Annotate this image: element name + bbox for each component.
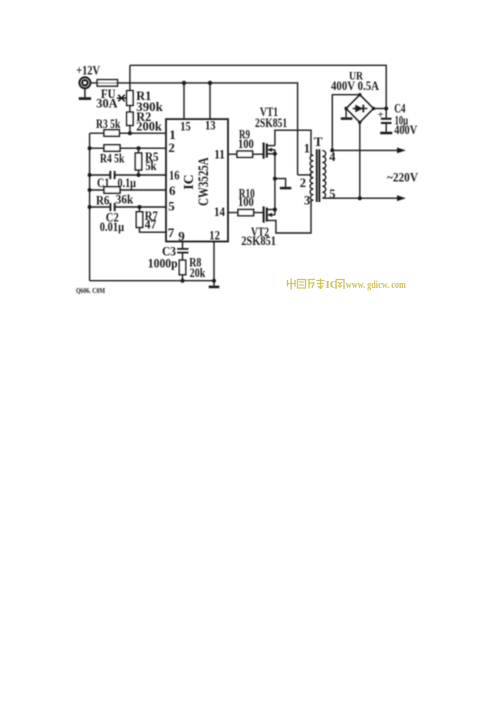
svg-text:1: 1 bbox=[304, 141, 310, 155]
node bridge top vertex bbox=[358, 93, 361, 96]
svg-text:2: 2 bbox=[168, 140, 175, 155]
svg-text:20k: 20k bbox=[190, 265, 206, 280]
svg-text:30A: 30A bbox=[96, 96, 118, 111]
wire: pin 11 to R9 to VT1 gate bbox=[228, 153, 263, 155]
node pin13 rail bbox=[208, 81, 212, 85]
svg-text:5k: 5k bbox=[145, 158, 157, 173]
svg-text:11: 11 bbox=[214, 146, 225, 161]
svg-text:100: 100 bbox=[238, 136, 254, 151]
svg-text:~220V: ~220V bbox=[387, 170, 418, 184]
svg-text:CW3525A: CW3525A bbox=[196, 157, 212, 206]
wire: vertical fuse node to top rail and down to R1 bbox=[129, 65, 131, 90]
svg-text:2: 2 bbox=[300, 176, 306, 190]
wire: pin 13 stub bbox=[209, 83, 211, 119]
svg-text:16: 16 bbox=[169, 168, 180, 183]
svg-text:+: + bbox=[378, 110, 384, 121]
node left bus row16 bbox=[88, 173, 92, 177]
wire: VT1 drain up and over to transformer tap 1 bbox=[275, 130, 314, 155]
output arrow top bbox=[397, 148, 406, 154]
svg-text:T: T bbox=[314, 134, 323, 149]
JUNCTION DOTS bbox=[88, 81, 389, 283]
ground bar under C4 bbox=[380, 132, 392, 135]
svg-text:100: 100 bbox=[238, 194, 254, 209]
node VT2 source bbox=[273, 208, 277, 212]
svg-text:C1: C1 bbox=[97, 175, 109, 190]
node C4 top bbox=[384, 107, 388, 111]
svg-text:2SK851: 2SK851 bbox=[241, 233, 276, 248]
svg-text:4: 4 bbox=[329, 150, 336, 164]
bridge rectifier UR bbox=[346, 95, 373, 123]
wire: pin 1 net (R3 row) bbox=[90, 132, 166, 134]
svg-text:0.01µ: 0.01µ bbox=[100, 219, 125, 234]
wire: pin 15 stub bbox=[183, 83, 185, 119]
resistor R7 bbox=[136, 212, 142, 228]
node bridge right vertex bbox=[372, 107, 375, 110]
wire: R2 bottom to pin1 net bbox=[129, 125, 131, 133]
transformer T core bbox=[317, 149, 320, 202]
node tap 5 / bridge bottom bbox=[358, 196, 362, 200]
resistor R6 bbox=[104, 187, 120, 193]
svg-text:1000p: 1000p bbox=[148, 255, 178, 270]
output arrow bottom bbox=[397, 195, 406, 201]
resistor R10 bbox=[238, 210, 254, 216]
transformer secondary winding bbox=[322, 151, 325, 199]
node pin15 rail bbox=[182, 81, 186, 85]
svg-text:400V 0.5A: 400V 0.5A bbox=[331, 79, 379, 93]
node R8 bottom rail bbox=[181, 279, 185, 283]
wire: output row top (tap 4) bbox=[332, 149, 397, 151]
node R5 bottom bbox=[137, 173, 141, 177]
transistor Q1 VT1 MOSFET bbox=[264, 143, 275, 159]
transformer primary winding bbox=[310, 155, 313, 200]
wire: connector to fuse bbox=[90, 82, 97, 84]
svg-text:200k: 200k bbox=[136, 119, 162, 134]
wire: bottom ground rail bbox=[90, 280, 214, 282]
svg-text:3: 3 bbox=[304, 194, 310, 208]
resistor R5 bbox=[135, 153, 141, 170]
node left bus row2 bbox=[88, 146, 92, 150]
wire: left vertical bus bbox=[89, 133, 91, 281]
wire: pin 2 net (R4 row) bbox=[90, 147, 166, 149]
wire: transformer centre tap 2 bbox=[298, 174, 312, 176]
svg-text:6: 6 bbox=[169, 183, 176, 198]
wire: VT1 source down to VT2 source bbox=[274, 154, 276, 210]
wire: pin 14 to R10 to VT2 gate bbox=[228, 212, 263, 214]
svg-text:Q606. C0M: Q606. C0M bbox=[76, 286, 105, 295]
svg-text:R4 5k: R4 5k bbox=[100, 150, 125, 165]
wire: bridge right vertex to C4 node bbox=[374, 108, 387, 110]
node left bus row5 bbox=[88, 205, 92, 209]
wire: R7 stubs and pin 7 lead bbox=[140, 207, 167, 232]
fuse FU bbox=[97, 80, 117, 86]
wire: R5 stubs bbox=[138, 148, 140, 175]
svg-text:47: 47 bbox=[145, 216, 157, 231]
capacitor C1 bbox=[110, 171, 114, 179]
resistor R3 bbox=[104, 130, 119, 136]
node bridge bottom vertex bbox=[358, 121, 361, 124]
ground under pin 12 bbox=[209, 286, 220, 289]
asterisk mark bbox=[117, 95, 126, 102]
wire: pin 9 through C3/R8 to ground rail bbox=[182, 242, 184, 281]
node pin12 rail bbox=[212, 279, 216, 283]
wire: mid ground tap bbox=[275, 179, 286, 187]
svg-text:12: 12 bbox=[209, 228, 220, 243]
svg-text:0.1µ: 0.1µ bbox=[118, 175, 137, 190]
ground at bridge left vertex bbox=[345, 109, 347, 118]
wire: pin 12 to ground bbox=[213, 242, 215, 286]
resistor R4 bbox=[104, 145, 120, 151]
wire: VT2 drain down and over to transformer tap 3 bbox=[267, 200, 314, 233]
capacitor C4 bbox=[381, 119, 392, 123]
svg-text:7: 7 bbox=[168, 225, 175, 240]
node R5 top bbox=[137, 146, 141, 150]
svg-text:400V: 400V bbox=[394, 122, 417, 137]
svg-text:9: 9 bbox=[178, 229, 185, 244]
op IC U1 CW3525A box bbox=[166, 119, 228, 241]
wire: output row bottom (tap 5) bbox=[322, 197, 397, 199]
svg-text:14: 14 bbox=[214, 204, 225, 219]
svg-text:R6: R6 bbox=[96, 193, 110, 208]
svg-text:+12V: +12V bbox=[76, 62, 100, 77]
svg-text:5: 5 bbox=[329, 187, 335, 201]
svg-text:R3 5k: R3 5k bbox=[96, 116, 121, 131]
connector +12V input jack bbox=[79, 77, 90, 97]
node R7 top bbox=[138, 205, 142, 209]
resistor R1 bbox=[127, 91, 133, 106]
svg-text:15: 15 bbox=[180, 118, 191, 133]
node R2 bottom bbox=[128, 131, 132, 135]
transistor Q2 VT2 MOSFET bbox=[264, 206, 275, 222]
resistor R9 bbox=[237, 151, 253, 157]
node VT1 source bbox=[273, 152, 277, 156]
capacitor C3 bbox=[177, 249, 188, 253]
resistor R2 bbox=[127, 112, 133, 125]
node tap 4 bbox=[330, 148, 334, 152]
node mid ground tap bbox=[273, 177, 277, 181]
svg-text:36k: 36k bbox=[116, 192, 134, 207]
wire: +12V rail (fuse output to IC pins 15/13 and transformer centre tap) bbox=[118, 83, 298, 175]
svg-text:13: 13 bbox=[205, 118, 216, 133]
watermark CJK glyph blocks bbox=[288, 279, 325, 290]
ground bar under connector bbox=[79, 97, 91, 100]
wire: bridge bottom vertical to tap5 row bbox=[359, 122, 361, 198]
svg-text:www. gdicw. com: www. gdicw. com bbox=[346, 280, 407, 291]
wire: pin 6 net (R6 row) bbox=[90, 189, 166, 191]
WIRES bbox=[90, 65, 398, 285]
wire: pin 5 net (C2 row) bbox=[90, 206, 166, 208]
ground mid (VT sources) bbox=[280, 187, 291, 190]
resistor R8 bbox=[179, 260, 185, 275]
TEXT LABELS bbox=[76, 62, 418, 280]
wire: bridge top-left to tap 4 vertical bbox=[332, 95, 360, 151]
svg-text:5: 5 bbox=[168, 199, 175, 214]
wire: pin 16 net (C1 row) bbox=[90, 174, 166, 176]
node left bus row6 bbox=[88, 188, 92, 192]
watermark 网 glyph block bbox=[336, 280, 344, 290]
watermark 中国广东IC网www.gdicw.com bbox=[288, 279, 407, 292]
wire: C4 lower lead bbox=[385, 123, 387, 132]
node bridge left vertex bbox=[344, 107, 347, 110]
wire: R1 bottom to R2 top bbox=[129, 105, 131, 112]
wire: top +12V rail to bridge/C4 bbox=[130, 65, 386, 118]
svg-text:IC: IC bbox=[182, 174, 197, 190]
svg-text:2SK851: 2SK851 bbox=[255, 115, 287, 130]
capacitor C2 bbox=[110, 203, 114, 211]
